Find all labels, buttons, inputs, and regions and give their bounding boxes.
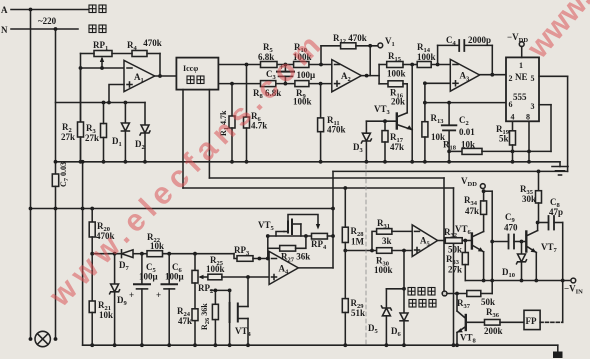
svg-text:2000p: 2000p: [468, 35, 491, 45]
resistor R29 51k: [342, 251, 365, 348]
ground symbol right: [552, 162, 568, 175]
resistor R30 100k: [345, 248, 412, 275]
svg-text:30k: 30k: [522, 194, 536, 204]
wire interlink y178: [209, 178, 444, 291]
resistor R9 100k: [293, 81, 312, 107]
capacitor C2 0.01: [442, 103, 475, 164]
resistor R36 200k: [466, 307, 524, 336]
resistor R4 470k: [127, 38, 162, 57]
svg-text:4: 4: [511, 113, 515, 122]
wire left section rail: [81, 160, 85, 345]
wire neutral line N: [11, 27, 78, 31]
svg-text:555: 555: [513, 92, 527, 102]
wire C8 right column: [561, 223, 565, 323]
capacitor C3 100u: [266, 62, 315, 84]
svg-text:100k: 100k: [374, 265, 393, 275]
svg-text:100k: 100k: [293, 97, 312, 107]
svg-text:+: +: [129, 290, 134, 300]
wire A4 inverting node: [266, 234, 270, 260]
wire crease line: [365, 165, 367, 345]
resistor R28 1M: [342, 188, 364, 252]
svg-text:1: 1: [519, 61, 523, 70]
node V1 test point: [378, 36, 395, 48]
wire A3 noninverting input: [423, 81, 450, 121]
resistor R20 470k: [89, 209, 114, 256]
diode D1: [112, 103, 129, 164]
resistor R11 470k: [318, 84, 346, 164]
resistor R16 20k: [379, 81, 407, 113]
wire A4 feedback top: [268, 234, 312, 238]
resistor R3 27k: [85, 103, 107, 164]
resistor R15 100k: [379, 51, 417, 79]
transistor VT6: [455, 214, 486, 282]
wire A3 output to pin2: [480, 74, 506, 76]
svg-text:2: 2: [509, 74, 513, 83]
svg-text:47p: 47p: [549, 207, 563, 217]
resistor R31 3k: [370, 218, 412, 252]
diode D10 zener: [502, 242, 527, 283]
wire interlink y171: [333, 170, 568, 174]
capacitor C5 100u: [129, 254, 158, 347]
svg-text:1M: 1M: [351, 237, 365, 247]
resistor R18 10k: [443, 140, 551, 155]
wire RP1/R4 feedback top: [81, 54, 162, 78]
svg-text:100μ: 100μ: [165, 272, 184, 282]
svg-text:8: 8: [526, 113, 530, 122]
wire U1 bottom pin right: [208, 90, 210, 178]
wire A1 output: [155, 75, 177, 77]
IC NE555: [506, 57, 539, 121]
svg-text:0.01: 0.01: [459, 127, 475, 137]
resistor R22 10k: [147, 232, 164, 257]
resistor R37 50k: [447, 291, 495, 311]
svg-text:100k: 100k: [206, 264, 225, 274]
resistor R5 6.8k: [258, 42, 277, 68]
svg-text:FP: FP: [526, 316, 537, 326]
wire FP to C8 column: [540, 321, 563, 323]
power VDD bottom: [461, 176, 486, 193]
lamp: [29, 331, 58, 346]
resistor R33 27k: [446, 241, 468, 281]
node -VIN terminal: [564, 278, 583, 295]
wire A2 output: [361, 65, 379, 84]
node N terminal: [1, 25, 8, 35]
op-amp A1: [124, 60, 155, 91]
wire pin3 right: [539, 105, 551, 152]
wire N vertical rail lower: [55, 186, 57, 339]
wire phase line A: [11, 8, 88, 12]
svg-text:47k: 47k: [465, 206, 479, 216]
resistor R26 36k rotated: [200, 290, 218, 347]
diode D3 zener: [353, 121, 371, 164]
wire pin8 down: [527, 121, 531, 163]
potentiometer RP4: [311, 233, 333, 251]
resistor R13 10k: [422, 113, 445, 164]
transistor VT8: [455, 294, 476, 348]
potentiometer RP3: [234, 245, 268, 261]
resistor R19 5k: [496, 121, 516, 163]
svg-text:50k: 50k: [448, 245, 462, 255]
diode D6: [386, 251, 408, 348]
wire A4 output: [298, 267, 333, 269]
wire N vertical rail upper: [55, 29, 57, 174]
resistor R25 100k: [206, 255, 269, 280]
svg-text:51k: 51k: [351, 308, 365, 318]
svg-text:100k: 100k: [387, 69, 406, 79]
resistor R6 4.7k: [244, 65, 268, 164]
resistor R34 47k: [464, 191, 487, 216]
diode D9 zener: [110, 254, 128, 347]
potentiometer RP1: [93, 40, 112, 68]
resistor R2 27k: [61, 68, 84, 162]
resistor R1 4.7k: [219, 84, 235, 164]
svg-text:100μ: 100μ: [139, 272, 158, 282]
diode D7: [119, 250, 133, 272]
resistor R27 36k: [268, 236, 310, 264]
wire long bus y208: [29, 207, 335, 211]
wire A vertical rail: [30, 10, 32, 340]
wire left feedback rail: [79, 54, 83, 164]
svg-text:3k: 3k: [382, 236, 392, 246]
label 相线 (phase): [89, 5, 106, 13]
svg-text:N: N: [1, 25, 8, 35]
resistor R32 50k: [438, 227, 472, 255]
node A terminal: [1, 5, 8, 15]
wire A1 inverting input: [79, 66, 124, 70]
resistor R17 47k: [382, 121, 404, 164]
wire U1 output bus upper: [218, 63, 331, 67]
svg-text:100k: 100k: [417, 52, 436, 62]
wire feedback column x333: [331, 171, 335, 268]
resistor R8 6.8k: [253, 81, 281, 100]
wire A1 noninverting input: [107, 85, 124, 105]
wire -VIN rail: [465, 280, 571, 282]
resistor R35 30k: [520, 171, 542, 222]
resistor R21 10k: [89, 254, 113, 347]
transistor VT7: [522, 221, 558, 283]
diode D5 zener: [368, 289, 391, 347]
svg-text:27k: 27k: [61, 132, 75, 142]
svg-text:+: +: [156, 290, 161, 300]
svg-text:10k: 10k: [461, 140, 475, 150]
wire pin5 right: [539, 76, 568, 171]
svg-text:3: 3: [531, 102, 535, 111]
svg-text:A: A: [1, 5, 8, 15]
svg-text:Iccφ: Iccφ: [183, 64, 198, 73]
label ~220: [38, 16, 57, 26]
resistor R10 100k: [293, 42, 312, 68]
wire VDD to C9 column: [484, 191, 495, 293]
svg-text:5k: 5k: [499, 134, 509, 144]
svg-text:27k: 27k: [85, 133, 99, 143]
svg-text:5: 5: [531, 74, 535, 83]
capacitor C9 470: [492, 212, 523, 249]
resistor R14 100k: [417, 42, 450, 68]
capacitor C6 100u: [156, 254, 184, 347]
wire U1 bottom pin left: [182, 90, 184, 188]
label 零线 (neutral): [89, 25, 106, 33]
node pulse terminal column: [444, 292, 446, 294]
svg-text:27k: 27k: [448, 265, 462, 275]
wire main ground rail: [54, 160, 560, 164]
potentiometer RP2: [192, 254, 213, 347]
wire input divider bus: [56, 101, 146, 105]
node pulse output terminal: [442, 291, 447, 296]
wire R15 junction down rail: [410, 65, 414, 164]
svg-text:470: 470: [504, 223, 518, 233]
op-amp A2: [332, 60, 362, 92]
ground symbol bottom right: [553, 345, 563, 358]
op-amp A5: [412, 225, 437, 257]
svg-text:47k: 47k: [390, 142, 404, 152]
svg-text:NE: NE: [515, 72, 528, 82]
IC FP block: [524, 310, 540, 329]
power -VDD: [507, 32, 528, 57]
wire bottom rail: [83, 344, 558, 346]
svg-text:200k: 200k: [484, 326, 503, 336]
capacitor C7 0.03: [52, 162, 70, 187]
svg-text:47k: 47k: [178, 316, 192, 326]
transistor VT4: [211, 277, 252, 347]
svg-text:6: 6: [509, 100, 513, 109]
svg-text:10k: 10k: [150, 241, 164, 251]
svg-text:50k: 50k: [481, 297, 495, 307]
op-amp A4: [269, 251, 298, 284]
diode D2 zener: [135, 103, 150, 164]
wire U1 output bus lower: [218, 82, 331, 86]
resistor R12 470k feedback: [321, 33, 378, 76]
svg-text:20k: 20k: [391, 97, 405, 107]
wire interlink y188: [183, 186, 455, 347]
svg-text:470k: 470k: [327, 125, 346, 135]
wire pin6 line: [425, 101, 506, 105]
capacitor C8 47p: [538, 197, 563, 230]
label pulse output 计数脉冲输出: [408, 288, 436, 308]
svg-text:10k: 10k: [99, 310, 113, 320]
IC block U1 (Icc module): [176, 58, 218, 90]
transistor VT5: [258, 215, 320, 237]
wire low-voltage bus y253.7: [92, 252, 237, 259]
svg-text:~220: ~220: [38, 16, 57, 26]
transistor VT3: [366, 104, 412, 130]
resistor R24 47k: [177, 306, 198, 326]
op-amp A3: [450, 59, 479, 91]
capacitor C4 2000p feedback: [438, 35, 495, 77]
